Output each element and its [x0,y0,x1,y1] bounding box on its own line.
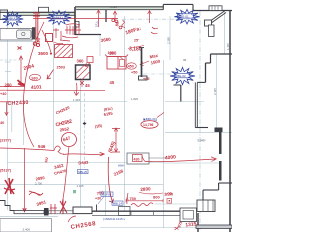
big sweeping red curve [23,22,44,147]
blue label MBL [78,170,89,174]
svg-text:(5137): (5137) [0,169,12,173]
svg-text:1F△: 1F△ [95,20,99,27]
steel pole [141,48,143,77]
top-left wall band A [0,12,75,15]
svg-text:2,115: 2,115 [213,88,217,95]
washbasin box [180,208,197,222]
mash squiggle [131,203,153,207]
red hatch hood box [55,45,73,58]
svg-text:14,756: 14,756 [143,123,153,127]
diamond tick on centerline [83,122,87,125]
left red vertical dim 2504 [0,56,25,90]
svg-text:KBE-02: KBE-02 [175,74,186,78]
door jamb bars right [219,128,222,154]
green tick [73,190,76,193]
light dimension horizontals [0,19,232,227]
svg-text:1,315: 1,315 [73,98,80,102]
bump [73,207,92,214]
tick and blue label near bump [96,205,98,211]
svg-text:1315: 1315 [185,221,197,228]
svg-text:2,385: 2,385 [167,37,171,44]
svg-text:1,315: 1,315 [77,184,84,188]
balcony [0,215,58,217]
top wall jog right [163,4,232,10]
svg-text:KBE-01: KBE-01 [178,14,189,18]
band middle segment [92,211,180,215]
red vertical x24.5 [23,148,26,212]
hood duct box on wall [39,7,49,12]
svg-text:MDF08: MDF08 [102,193,112,197]
svg-text:280: 280 [5,83,13,88]
svg-text:800: 800 [153,194,160,199]
svg-text:25’: 25’ [134,39,139,43]
svg-text:946: 946 [38,144,46,149]
svg-text:2,400: 2,400 [23,228,31,232]
svg-text:bWH: bWH [118,164,124,168]
svg-text:2503: 2503 [57,66,65,70]
top wall band B [75,7,163,10]
wall corner x75 [74,7,76,35]
svg-text:CH2430: CH2430 [7,100,29,107]
svg-text:360: 360 [77,59,85,64]
bottom wall band left [0,201,14,211]
svg-text:180: 180 [108,51,114,55]
blue label mid [112,201,123,205]
svg-text:1,240: 1,240 [198,139,205,143]
WC corner bottom right [197,183,232,212]
left edge red marks [0,102,11,116]
starburst S3 [174,9,199,24]
top-left corner box [0,10,8,20]
svg-text:45: 45 [85,83,90,88]
starburst S2 [47,10,71,24]
oval 647 [62,133,77,147]
tiny gray dim texts [35,5,138,188]
svg-text:2,700: 2,700 [35,182,42,186]
svg-text:4101: 4101 [31,84,42,91]
red line under top wall [33,10,125,29]
bath walls right [174,54,233,132]
svg-text:450: 450 [128,65,134,69]
svg-text:1,115: 1,115 [226,43,230,50]
red cabinet sketch [105,55,128,70]
door jog at x75 [75,22,79,28]
svg-text:1,820: 1,820 [110,5,117,9]
gray box with leader [127,153,149,164]
svg-text:1,820: 1,820 [131,97,138,101]
svg-text:2800: 2800 [140,186,151,192]
svg-text:MBL25: MBL25 [78,170,87,174]
svg-text:430: 430 [134,157,140,161]
stair vent box top right [209,6,222,11]
svg-text:(2377): (2377) [0,139,12,143]
red hood scribble cluster [53,24,81,44]
svg-text:40: 40 [0,121,4,125]
svg-text:3600: 3600 [38,51,49,56]
starburst S4 [170,67,195,84]
red descending curve with V arrow [108,157,113,203]
jamb x106 [105,10,107,22]
svg-text:+50: +50 [131,71,137,75]
svg-text:MBL14: MBL14 [113,202,123,206]
light dimension verticals [7,11,224,230]
small box in band [119,207,131,216]
svg-text:+40: +40 [0,92,6,96]
svg-text:D443: D443 [78,160,89,166]
red wavy dim line 946 [0,148,54,151]
curve from oval down [62,147,69,205]
red vertical dim 645 [112,128,120,152]
svg-text:WBKA1: WBKA1 [53,15,63,19]
svg-text:+30: +30 [95,197,101,201]
svg-text:180: 180 [31,75,38,80]
starburst S1 [2,12,24,26]
stair stringer diagonal [205,11,227,37]
svg-text:WBKA2: WBKA2 [7,16,17,20]
svg-text:4B: 4B [183,58,186,62]
right outer wall [229,11,231,233]
kitchen counter [0,27,35,40]
red pipes right of counter [18,13,53,50]
bottom right walls [196,213,232,232]
red main horizontal 4101 [7,89,105,91]
svg-text:45: 45 [110,80,115,85]
red scribble near 150 [148,11,158,34]
pillar square with red hatch [76,65,91,80]
svg-text:4000: 4000 [165,154,177,161]
bottom-left heavy red cluster [4,178,15,194]
svg-text:▷WMCH·1215·L: ▷WMCH·1215·L [103,217,126,221]
